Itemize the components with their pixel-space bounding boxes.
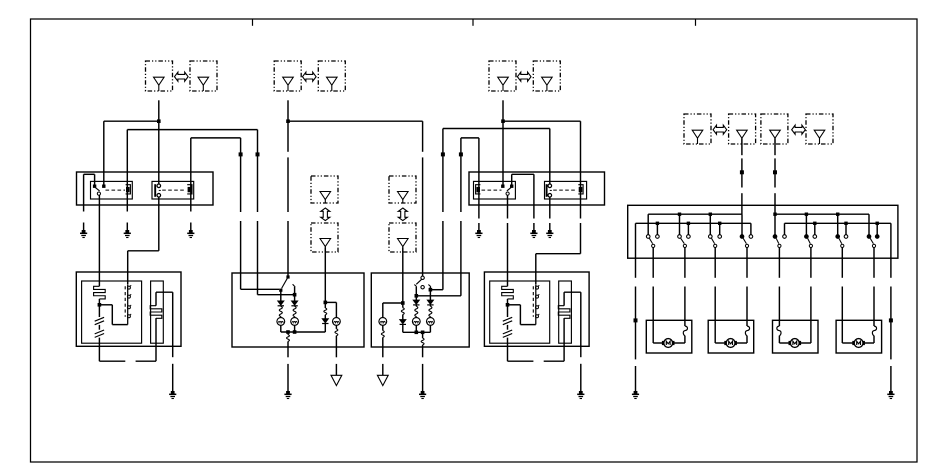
- node headlamp G junction: [98, 299, 102, 307]
- wire switch SW4 output to motor: [746, 248, 748, 321]
- wire headlamp J bottom link: [508, 318, 565, 361]
- resistor below bus of unit I: [421, 332, 424, 357]
- ground G12 bottom right of box L: [887, 391, 894, 399]
- ground G6 below relay box F: [546, 230, 553, 238]
- node bus A junction: [157, 119, 161, 123]
- motor lead wires M2: [715, 320, 749, 343]
- lamp L3 of unit H: [333, 318, 341, 329]
- node unit H throw contact: [279, 289, 282, 292]
- relay R2 dashed link: [162, 189, 185, 191]
- wire unit I throw right column: [429, 287, 431, 300]
- motor box outline M1: [646, 320, 692, 353]
- resistor coil col1 unit I: [401, 303, 404, 320]
- relay R3 dashed link: [482, 189, 502, 191]
- ground G7 below headlamp G: [169, 391, 176, 399]
- triangle terminal T2: [377, 375, 388, 385]
- connector C4 (dashed box, pair 2 right): [318, 61, 345, 91]
- relay R4 dashed link: [553, 189, 576, 191]
- wire relay R3 contact pass-through to ground: [478, 138, 480, 230]
- limit switch SW5: [773, 235, 786, 248]
- splice on C8 wire: [740, 170, 744, 174]
- ground G11 bottom left of box L: [632, 391, 639, 399]
- relay box F outline: [469, 172, 605, 205]
- top border tick mark 1: [252, 20, 254, 26]
- wire from connector C3 down to bus D: [287, 100, 289, 121]
- wire from connector C5 down to bus E: [502, 100, 504, 121]
- pin column of headlamp J socket: [533, 284, 539, 324]
- wire switch SW7 output to motor: [841, 248, 843, 321]
- connector C9 (dashed box): [761, 114, 788, 144]
- limit switch SW4 feed wires: [742, 214, 751, 235]
- splice on right ground drop: [889, 318, 893, 322]
- motor box outline M3: [773, 320, 819, 353]
- wire switch SW1 output to motor: [652, 248, 654, 321]
- node unit H bus junction 2: [293, 330, 297, 334]
- bus2 left in box L: [636, 222, 751, 224]
- node unit I bus junction 2: [421, 331, 425, 335]
- wire relay R2 coil to lamp box G pin column: [128, 197, 159, 284]
- wire bus A to relay R1 pin: [103, 121, 105, 186]
- top border tick mark 2: [472, 20, 474, 26]
- connector C1 (dashed box, pair 1 left): [146, 61, 173, 91]
- wire bus D right leg to switch pivot of lamp unit I: [422, 121, 424, 276]
- diode D2 of unit H: [291, 295, 297, 306]
- bus F horizontal (relay R4 coil to unit I): [443, 128, 550, 130]
- wire unit I throw left column: [415, 287, 417, 296]
- ground notch wire of relay R1: [84, 174, 95, 230]
- resistor below lamp L4: [381, 331, 384, 358]
- wire relay R4 coil to ground: [549, 197, 551, 230]
- diode D3 of unit H: [322, 319, 328, 332]
- connector C2 (dashed box, pair 1 right): [190, 61, 217, 91]
- mating arrow pair 4: [713, 125, 727, 134]
- wire bus A junction down to relay R2 coil: [158, 121, 160, 184]
- splice on unit H pin B wire: [256, 152, 260, 156]
- relay R1 pin dots: [93, 185, 106, 188]
- wire bus F left leg to unit I pin 3: [430, 129, 443, 290]
- mating arrow K2: [398, 208, 407, 221]
- limit switch SW1: [646, 235, 659, 248]
- filament squiggle 1 of headlamp J: [503, 305, 512, 325]
- pin column of headlamp G socket: [125, 284, 131, 324]
- relay R2 outline: [152, 181, 194, 199]
- headlamp box G outer: [76, 272, 181, 346]
- wire from connector C9 down to box L: [774, 138, 776, 214]
- motor lead wires M4: [842, 320, 876, 343]
- bus A horizontal: [104, 120, 159, 122]
- bus bar of unit I: [403, 331, 431, 333]
- lamp L6 of unit I: [427, 318, 435, 333]
- wire unit H pin D from connector K1: [324, 247, 326, 302]
- wire unit H pin A to switch throw: [241, 288, 280, 290]
- wire unit H pin B link: [258, 294, 294, 296]
- resistor coil colR unit I: [429, 305, 432, 318]
- relay R3 pin dots: [501, 185, 513, 188]
- wire relay R2 contact pass-through to ground: [190, 138, 192, 230]
- node bus D junction: [286, 119, 290, 123]
- ground notch wire of relay R3: [512, 174, 534, 230]
- ground G2 below relay box: [124, 230, 131, 238]
- wire to triangle terminal T2: [382, 364, 384, 375]
- connector C5 (dashed box, pair 3 left): [489, 61, 516, 91]
- wire unit H branch to lamp L3: [325, 302, 336, 317]
- wire headlamp G bottom link: [99, 318, 156, 361]
- switch box L outline: [628, 205, 898, 258]
- mating arrow K1: [321, 208, 330, 221]
- relay R1 contact block: [126, 185, 131, 194]
- wire to triangle terminal T1: [335, 364, 337, 375]
- combination lamp unit I outline: [371, 273, 469, 347]
- splice on unit I pin4 wire: [459, 152, 463, 156]
- connector C7 (dashed box): [684, 114, 711, 144]
- wire bus C right leg to unit H pin A: [240, 138, 242, 289]
- mating arrow pair 3: [517, 72, 531, 81]
- motor lead wires M1: [653, 320, 687, 343]
- wire unit H to ground: [287, 364, 289, 391]
- relay R1 outline: [91, 181, 133, 199]
- connector C12 (dashed box, K1 bottom): [311, 223, 338, 252]
- bus1 left in box L: [648, 213, 742, 215]
- wire switch SW8 output to motor: [873, 248, 875, 321]
- bus1 right in box L: [775, 213, 869, 215]
- lamp L1 of unit H: [277, 318, 285, 333]
- mating arrow pair 5: [792, 125, 806, 134]
- connector C14 (dashed box, K2 bottom): [389, 223, 416, 252]
- relay R2 coil bar: [154, 184, 156, 197]
- wire bus E to relay R3 pin: [502, 121, 504, 184]
- motor box outline M4: [836, 320, 882, 353]
- relay R2 coil terminals: [157, 184, 161, 197]
- bus2 right in box L: [785, 222, 891, 224]
- diode D1 of unit H: [278, 290, 284, 306]
- headlamp box J inner right (narrow): [559, 281, 572, 343]
- wire unit I pin1 from connector K2: [402, 247, 404, 303]
- ground G9 below unit H: [284, 391, 291, 399]
- splice on unit I pin3 wire: [441, 152, 445, 156]
- filament squiggle 2 of headlamp G: [95, 325, 104, 361]
- limit switch SW7 feed wires: [836, 213, 848, 235]
- node unit H bus junction 1: [286, 330, 290, 334]
- combination lamp unit H outline: [232, 273, 364, 347]
- wire bus G left leg to unit I pin 4: [416, 138, 461, 296]
- wire switch SW3 output to motor: [714, 248, 716, 321]
- relay R1 switch blade: [95, 187, 100, 286]
- resistor coil colL unit I: [415, 305, 418, 318]
- headlamp box G inner left: [82, 281, 142, 343]
- wire unit I branch to lamp L4: [383, 303, 403, 318]
- resistor coil col1 unit H: [279, 306, 282, 318]
- ground G3 below relay box: [187, 230, 194, 238]
- limit switch SW7: [836, 235, 848, 248]
- mating arrow pair 2: [303, 72, 317, 81]
- motor lead wires M3: [777, 320, 811, 343]
- wire bus E right leg through relay R4 contact: [580, 121, 582, 254]
- limit switch SW4: [740, 235, 753, 248]
- wire headlamp G to ground: [156, 292, 173, 391]
- node unit I bus junction 1: [415, 331, 419, 335]
- ground G1 below relay box: [80, 230, 87, 238]
- node unit H pin B junction: [293, 293, 297, 297]
- ground G5 below relay box F: [530, 230, 537, 238]
- wire from connector C1 down to bus A: [158, 100, 160, 121]
- limit switch SW8 feed wires: [869, 214, 879, 235]
- wire bus D to switch pivot of lamp unit H: [287, 121, 289, 276]
- limit switch SW2: [678, 235, 691, 248]
- splice on unit H pin A wire: [239, 152, 243, 156]
- wire headlamp J to ground: [564, 292, 581, 391]
- wire bus2 right end to ground drop: [890, 223, 892, 391]
- wire bus2 left end to ground drop: [635, 223, 637, 391]
- relay R3 switch blade: [506, 187, 511, 286]
- limit switch SW5 feed wires: [773, 213, 784, 235]
- resistor coil col2 unit H: [293, 306, 296, 318]
- filament F2 of headlamp G (narrow box): [150, 292, 162, 318]
- connector C10 (dashed box): [806, 114, 833, 144]
- limit switch SW6: [805, 235, 817, 248]
- node unit I pin3 junction: [429, 288, 433, 292]
- triangle terminal T1: [331, 375, 342, 385]
- lamp L2 of unit H: [291, 318, 299, 333]
- bus C horizontal (relay R2 contact to unit H): [191, 137, 241, 139]
- filament F4 of headlamp J (narrow box): [558, 292, 570, 318]
- resistor coil col3 unit H: [324, 302, 327, 318]
- wire headlamp J internal link: [508, 305, 536, 325]
- bus G horizontal (relay R3 contact to unit I): [461, 137, 479, 139]
- connector C11 (dashed box, K1 top): [311, 176, 338, 203]
- wire switch SW6 output to motor: [810, 248, 812, 321]
- filament F3 of headlamp J: [502, 286, 514, 299]
- diode D4 of unit I: [400, 320, 406, 333]
- relay R4 contact block: [578, 185, 583, 194]
- resistor coil col4 unit H: [335, 329, 338, 357]
- relay R4 coil bar: [546, 184, 548, 197]
- lamp L4 of unit I: [379, 318, 387, 331]
- wire relay R1 contact pass-through to ground: [126, 130, 128, 230]
- node headlamp J junction: [506, 299, 510, 307]
- ground G8 below headlamp J: [577, 391, 584, 399]
- limit switch SW2 feed wires: [678, 213, 690, 235]
- switch S1 of unit H: [282, 275, 296, 294]
- connector C13 (dashed box, K2 top): [389, 176, 416, 203]
- bus B horizontal (relay R1 contact to unit H): [127, 129, 257, 131]
- relay R4 outline: [545, 181, 587, 199]
- limit switch SW6 feed wires: [805, 213, 817, 235]
- wire headlamp G internal link: [99, 305, 127, 325]
- limit switch SW8: [867, 235, 879, 248]
- lamp L5 of unit I: [412, 318, 420, 333]
- switch S2 of unit I: [414, 276, 431, 289]
- wire from connector C8 down to box L: [741, 138, 743, 214]
- mating arrow pair 1: [175, 72, 189, 81]
- motor symbol M1: [662, 339, 675, 348]
- wire switch SW2 output to motor: [684, 248, 686, 321]
- wire bus B right leg to unit H pin B: [257, 130, 259, 295]
- node bus E junction: [501, 119, 505, 123]
- wire relay R4 contact route to lamp box J: [536, 254, 581, 284]
- relay R2 contact block: [187, 185, 192, 194]
- relay R3 contact block: [476, 185, 481, 194]
- node unit I pin1 junction: [401, 301, 405, 305]
- filament squiggle 2 of headlamp J: [503, 325, 512, 361]
- wire switch SW5 output to motor: [778, 248, 780, 321]
- ground G4 below relay box F: [475, 230, 482, 238]
- connector C6 (dashed box, pair 3 right): [533, 61, 560, 91]
- diode D6 of unit I: [427, 300, 433, 305]
- splice on C9 wire: [773, 170, 777, 174]
- motor box outline M2: [708, 320, 754, 353]
- filament F1 of headlamp G: [94, 286, 106, 299]
- motor symbol M3: [789, 339, 802, 348]
- top border tick mark 3: [695, 20, 697, 26]
- bus bar of unit H: [281, 331, 326, 333]
- headlamp box J inner left: [490, 281, 550, 343]
- bus E horizontal: [503, 120, 581, 122]
- motor symbol M4: [852, 339, 865, 348]
- motor symbol M2: [724, 339, 737, 348]
- wire bus F right leg to relay R4 coil: [549, 129, 551, 185]
- resistor below bus of unit H: [287, 332, 290, 357]
- ground G10 below unit I: [419, 391, 426, 399]
- filament squiggle 1 of headlamp G: [95, 305, 104, 325]
- connector C8 (dashed box): [729, 114, 756, 144]
- limit switch SW3: [709, 235, 722, 248]
- relay box E outline: [77, 172, 214, 205]
- node unit H pin D junction: [324, 301, 328, 305]
- headlamp box J outer: [484, 272, 589, 346]
- limit switch SW3 feed wires: [709, 213, 722, 235]
- bus D horizontal: [288, 120, 423, 122]
- wire unit I to ground: [422, 364, 424, 391]
- connector C3 (dashed box, pair 2 left): [274, 61, 301, 91]
- headlamp box G inner right (narrow): [151, 281, 164, 343]
- node unit I pin4 junction: [415, 294, 419, 298]
- splice on left ground drop: [634, 318, 638, 322]
- relay R3 outline: [474, 181, 516, 199]
- relay R1 dashed link: [106, 189, 126, 191]
- diode D5 of unit I: [413, 296, 419, 305]
- limit switch SW1 feed wires: [648, 214, 659, 235]
- relay R4 coil terminals: [548, 184, 552, 197]
